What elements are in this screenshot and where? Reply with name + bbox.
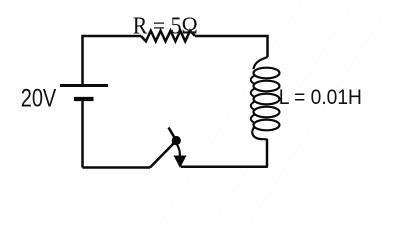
battery V1 short plate (-) (74, 97, 94, 101)
switch S1 arrowhead (174, 156, 187, 169)
svg-text:R = 5Ω: R = 5Ω (133, 13, 198, 39)
switch S1 lever tail (169, 128, 177, 141)
resistor R1 zigzag (141, 31, 195, 42)
wire bottom-left segment (83, 166, 151, 169)
inductor L1 loop 5 (254, 120, 280, 131)
battery V1 long plate (+) (60, 84, 108, 87)
watermark diagonal line 2 (211, 0, 356, 226)
inductor L1 left connector 1 (251, 76, 255, 85)
wire left upper segment (83, 36, 142, 86)
inductor L1 loop 4 (254, 107, 280, 118)
inductor L1 entry hook (254, 57, 268, 69)
watermark diagonal line 3 (248, 0, 393, 226)
svg-text:L = 0.01H: L = 0.01H (279, 86, 362, 109)
wire top-left segment (81, 99, 84, 168)
switch S1 pivot dot (172, 136, 181, 145)
switch S1 lever (150, 141, 176, 168)
inductor L1 left connector 3 (251, 102, 255, 111)
inductor L1 left connector 2 (251, 89, 255, 98)
inductor L1 left connector 4 (251, 115, 255, 124)
svg-text:20V: 20V (21, 84, 57, 112)
switch S1 arrow shaft (177, 145, 180, 157)
inductor L1 loop 3 (254, 94, 280, 105)
wire bottom-right segment (181, 166, 268, 169)
wire right lower segment (266, 139, 269, 167)
inductor L1 loop 1 (254, 68, 280, 79)
inductor L1 exit hook (252, 128, 267, 140)
inductor L1 loop 2 (254, 81, 280, 92)
wire top-right segment (195, 36, 268, 57)
watermark diagonal line 1 (158, 0, 303, 226)
